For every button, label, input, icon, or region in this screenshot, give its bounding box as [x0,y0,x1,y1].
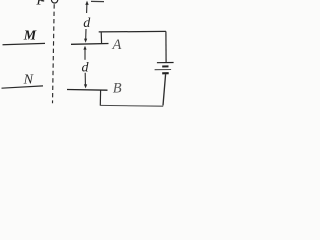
capacitor plate B [67,89,108,92]
wire stub from plate A up to top wire [100,32,102,44]
dimension arrow d (between plates A and B) [83,46,87,89]
battery E : long plate 2 [155,69,172,71]
P bowl remnant [41,0,44,2]
top edge remnant line [91,0,104,2]
svg-text:A: A [112,37,122,53]
svg-text:B: B [113,81,122,97]
svg-text:N: N [23,72,34,87]
node O (small circle at top of dashed axis, partially cut) [51,0,57,3]
wire stub from bottom wire up to plate B [99,90,101,106]
right wire (top section, down to battery) [165,31,167,62]
plate N line [2,86,44,88]
battery E : long plate 1 [157,62,174,64]
dashed axis line through O [53,4,55,103]
top wire [99,30,166,33]
battery E : short plate 2 [162,72,169,74]
right wire (bottom section, battery to bottom wire) [163,74,166,105]
dimension arrow d (top, from top edge down to plate A) [84,1,89,43]
bottom wire [101,104,164,107]
battery E : short plate 1 [162,65,168,67]
svg-text:M: M [23,29,37,44]
svg-text:d: d [82,60,90,75]
capacitor plate A [71,43,109,46]
plate M line [3,43,46,44]
svg-text:d: d [83,16,91,31]
